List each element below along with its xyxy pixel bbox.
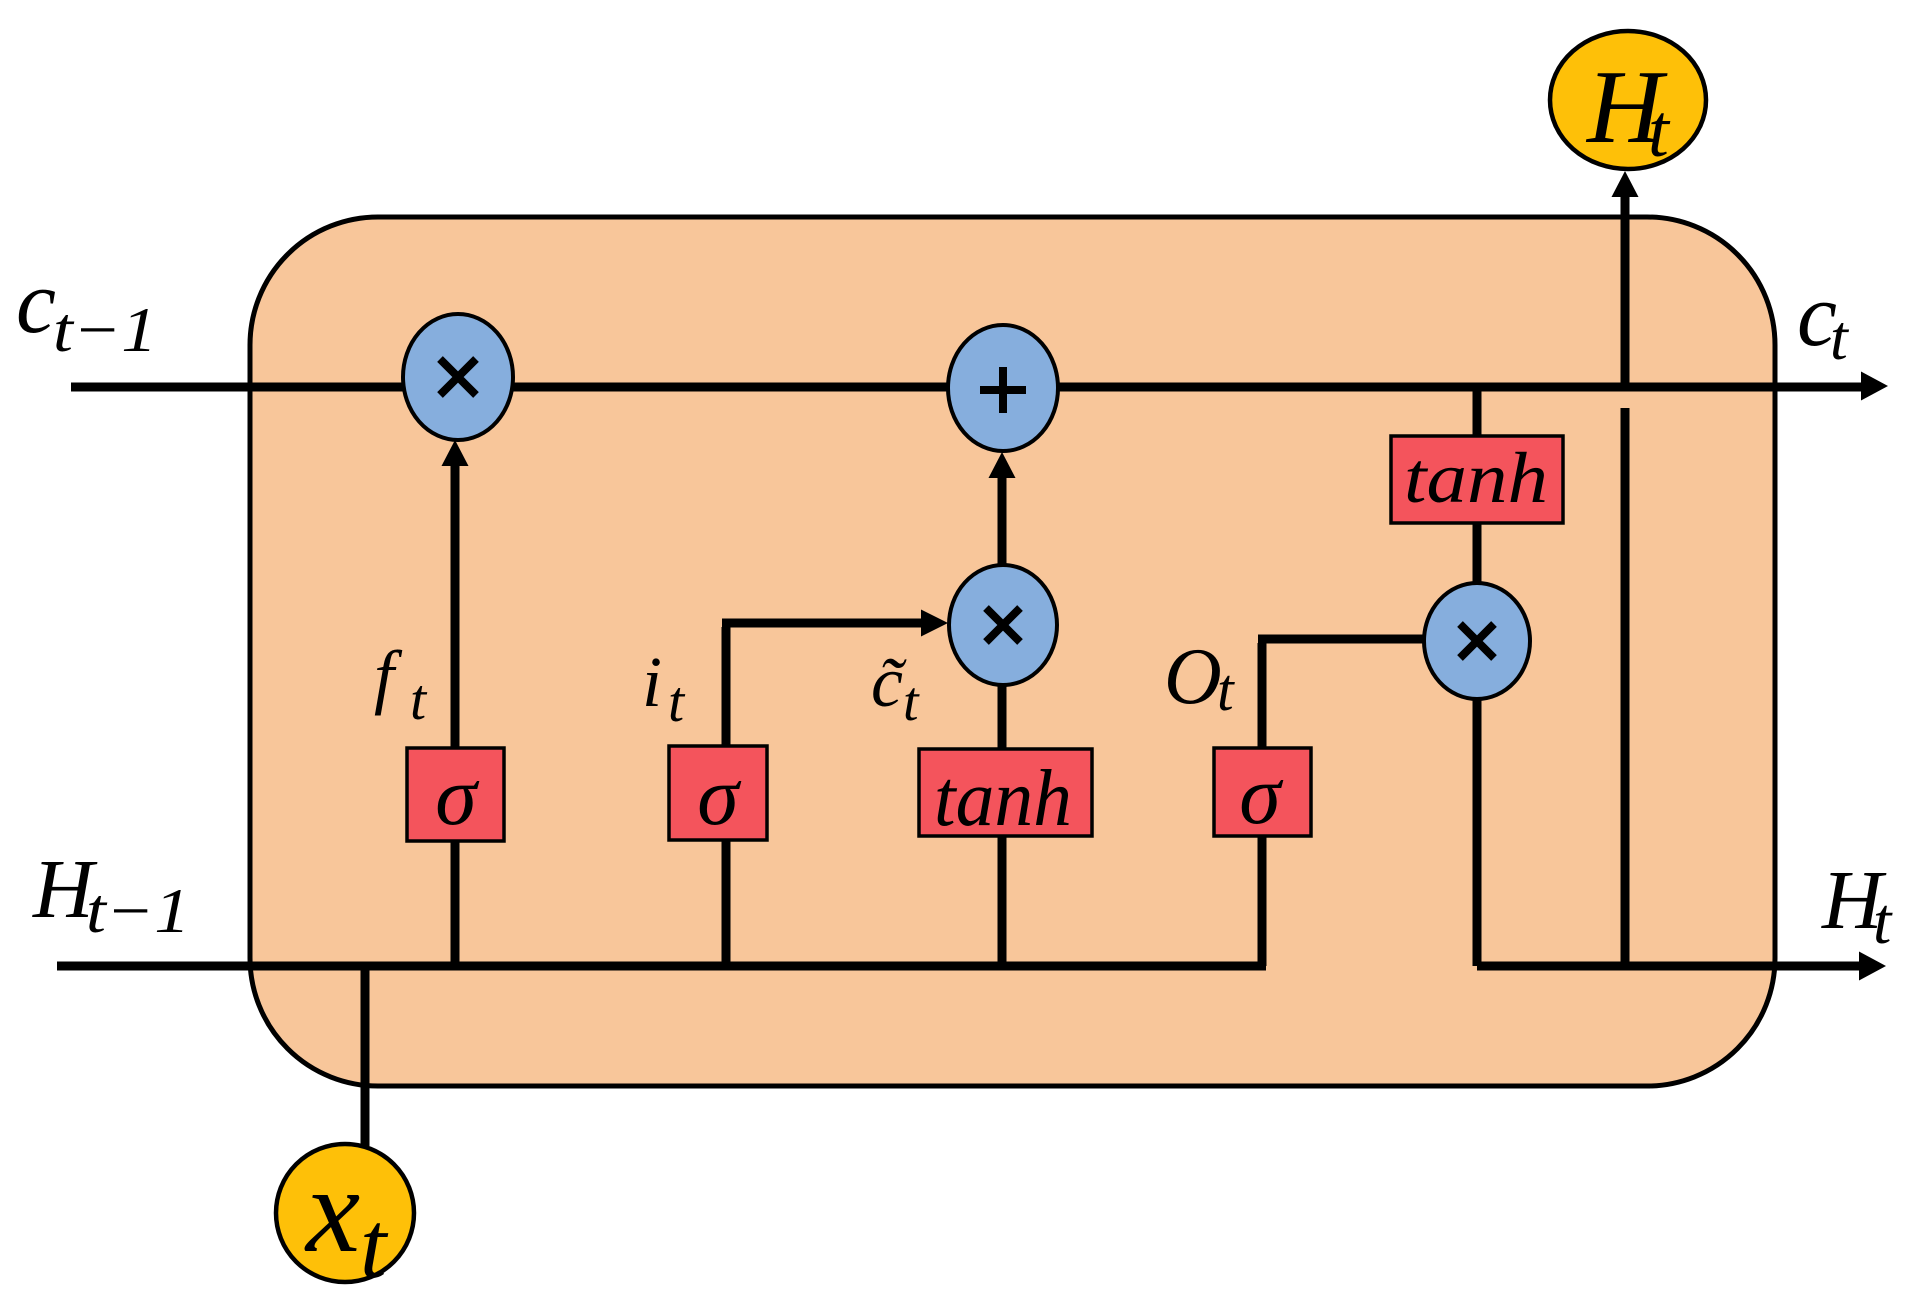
svg-text:t: t: [903, 671, 920, 733]
svg-text:t−1: t−1: [86, 875, 190, 946]
svg-text:t: t: [360, 1192, 389, 1298]
svg-text:tanh: tanh: [934, 755, 1072, 843]
svg-text:t: t: [1830, 302, 1850, 373]
svg-text:x: x: [304, 1143, 360, 1278]
svg-text:t: t: [1873, 885, 1893, 958]
svg-text:t: t: [1217, 657, 1235, 723]
svg-text:σ: σ: [697, 750, 742, 843]
svg-text:c̃: c̃: [871, 642, 907, 722]
svg-text:c: c: [16, 253, 56, 352]
svg-text:t−1: t−1: [53, 294, 157, 365]
svg-text:tanh: tanh: [1404, 438, 1548, 518]
svg-text:t: t: [668, 669, 686, 734]
svg-text:i: i: [642, 642, 662, 722]
svg-text:t: t: [1648, 90, 1671, 173]
svg-text:σ: σ: [1239, 749, 1284, 842]
svg-text:t: t: [410, 667, 428, 732]
svg-text:σ: σ: [435, 750, 480, 843]
svg-text:O: O: [1164, 633, 1222, 721]
